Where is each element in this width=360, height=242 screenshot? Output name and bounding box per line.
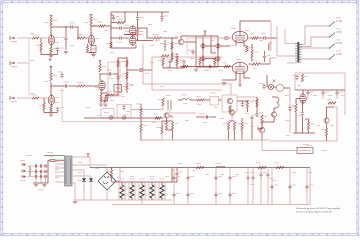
wire bright cap branch [28, 38, 30, 62]
pot loop P2 [101, 109, 114, 118]
wire OT riser x285 [285, 29, 296, 44]
wire v6 [302, 90, 304, 94]
triode V3A [130, 25, 136, 37]
input jack J1 [10, 36, 17, 42]
cap C11 [188, 49, 195, 55]
resistor R52 [307, 122, 314, 130]
filter bottom wire [33, 182, 48, 184]
triode V1A [48, 34, 54, 46]
resistor R6 plate load [90, 17, 97, 25]
cap C18 [166, 59, 172, 67]
speaker output group 3 [299, 40, 341, 49]
resistor R41 inline [153, 114, 161, 120]
dropper resistor RD5 [159, 179, 165, 201]
resistor R56 rail [195, 163, 204, 169]
bias jack JB [258, 126, 265, 132]
wire V5A plate up [240, 21, 258, 31]
wire V1A cathode [50, 45, 52, 47]
wire y95 to gnd drop [106, 95, 108, 97]
supply pad V1B [49, 59, 53, 73]
resistor R12 splitter [153, 34, 161, 39]
rail y167 left [90, 167, 172, 169]
T1 right stubs [72, 165, 107, 183]
cap C26 [321, 90, 329, 96]
filter cap C32 bottom [214, 192, 222, 198]
node V1A plate [50, 26, 51, 27]
lamp link y57 [205, 58, 216, 60]
wire tremolo y84 run [143, 44, 231, 95]
wire bridge top [106, 168, 108, 173]
wire r34 [199, 65, 201, 67]
lamp symbol LP2 [201, 56, 205, 60]
supply pad V1A [50, 16, 53, 18]
coupling cap C14 [63, 82, 69, 88]
vert x257 [256, 97, 258, 112]
resistor R8 small [117, 19, 125, 24]
wire J3 to R [17, 97, 32, 99]
speaker connector bar [297, 42, 299, 63]
ground V5B [238, 84, 242, 86]
wire OT riser x271 [270, 22, 272, 44]
wire r38 out [204, 99, 210, 101]
resistor R55 feed [106, 168, 113, 183]
wire x172 drop [171, 168, 173, 183]
wire y58 to pot [118, 57, 127, 59]
resistor R1 [31, 35, 39, 40]
wire bright mix down [28, 62, 30, 97]
cap C6 [117, 24, 123, 30]
rail y182 [112, 181, 172, 183]
resistor R18 [31, 95, 39, 100]
Bplus rect top [295, 72, 345, 74]
resistor R43 [157, 126, 164, 134]
wire y63 approach [287, 62, 297, 64]
wire C6 to V3A [123, 27, 129, 29]
wire y21 to OT [258, 20, 271, 22]
wire d1 top [80, 169, 84, 171]
diode D1 [82, 170, 86, 200]
wire q1 out [184, 41, 196, 43]
connector comb teeth right [299, 45, 301, 63]
wire plate to C14 [51, 85, 64, 87]
filter cap C30 bottom [172, 192, 180, 198]
wire drop mid [137, 21, 139, 29]
title text line2 [296, 210, 332, 213]
cap C7 [117, 36, 123, 42]
lamp symbol LP4 [216, 56, 220, 60]
wire cathode bottom bus [41, 51, 58, 55]
wire v5a screen [249, 37, 263, 39]
coupling cap C16 [107, 70, 113, 76]
wire C33 [229, 168, 231, 205]
wire c23 [251, 121, 253, 140]
wire w1 [272, 97, 277, 112]
cathode resistor R22 [50, 106, 52, 113]
wire y140 left [141, 139, 162, 141]
transistor Q2 [227, 98, 232, 104]
cap C9 rail [160, 15, 168, 21]
resistor R47 [233, 122, 240, 130]
pot P3 [122, 111, 130, 119]
wire y141 long [270, 140, 337, 142]
ground tone branch [64, 52, 68, 54]
rail y57 box [152, 56, 222, 58]
node bus2 [110, 37, 111, 38]
regulator triode V6 [300, 93, 306, 105]
transistor Q7 [324, 118, 329, 124]
wire box left [151, 57, 153, 70]
wire J1 to R1 [17, 37, 32, 39]
bridge rectifier BR1 [98, 172, 116, 190]
wire V5B right [249, 63, 253, 65]
reservoir cap C37 [270, 168, 278, 205]
wire bus to C7 [111, 37, 118, 39]
supply arrow PSU [87, 154, 90, 158]
speaker output group 1 [299, 18, 341, 45]
wire R3 to V2A [85, 37, 88, 39]
wire q3 down [167, 116, 173, 130]
cap pair C34 [245, 172, 255, 185]
wire q7 bottom [326, 136, 328, 141]
resistor R57 rail [256, 163, 266, 169]
resistor R9 bus bottom [106, 42, 112, 48]
bus x203 [202, 36, 204, 67]
cap C13 [58, 72, 64, 79]
wire V1A plate [50, 27, 52, 35]
resistor R49 [261, 115, 268, 123]
feedback wire right [187, 38, 232, 55]
grid cap C10b [175, 53, 178, 62]
wire bus to C6 [111, 27, 118, 29]
resistor R29 [122, 60, 128, 67]
relay box RB1 [114, 85, 127, 93]
wire T1 ct ground [74, 183, 76, 200]
wire q7 coll [327, 107, 335, 118]
resistor R42b [140, 124, 147, 132]
wire r8 [111, 12, 125, 23]
wire R1 to V1 grid [39, 37, 48, 39]
wire y133 [293, 132, 315, 134]
cap C12 [261, 33, 267, 40]
label smudges scatter [20, 22, 345, 187]
supply sym SP1 [222, 36, 231, 40]
wire C7 to V4A [123, 37, 129, 39]
wire r48 [241, 118, 243, 140]
wire y44 link [205, 45, 216, 47]
output tube V5A [232, 31, 248, 43]
wire V1B cathode [44, 105, 58, 113]
wire V2A cathode bus [88, 44, 94, 54]
resistor R30b [126, 79, 133, 93]
wire band right [237, 101, 248, 112]
wire y80 [222, 79, 236, 81]
dropper resistor RD4 [149, 179, 155, 201]
mains red wire 2 [48, 160, 65, 162]
cathode R24 [100, 94, 102, 101]
node bus1 [110, 27, 111, 28]
resistor R14 [171, 53, 178, 60]
node V2B plate [99, 73, 100, 74]
tone branch x66 [65, 26, 66, 50]
ground x105 [103, 104, 107, 106]
bypass cap C2 [56, 47, 64, 53]
wire cluster top [267, 75, 290, 88]
wire r43 [161, 134, 163, 140]
resistor R30 [122, 72, 128, 79]
wire C32 [215, 168, 217, 205]
resistor R59 [252, 99, 258, 107]
wire splitter out1 [137, 40, 153, 42]
resistor R58 rail [274, 163, 284, 169]
feedback wire long [62, 88, 162, 122]
resistor R51 [291, 104, 297, 112]
ground PSU left [73, 200, 77, 204]
wire C1 to V2 grid path [74, 27, 78, 38]
bias connector box [297, 144, 313, 154]
ground V2B [99, 104, 103, 106]
wire bus bottom [111, 45, 136, 48]
coupling cap C1 [69, 23, 75, 29]
wire v5b pins [236, 74, 250, 84]
node q5 [140, 139, 141, 140]
wire x142 gnd drop [141, 200, 143, 205]
lamp indicator LA1 [268, 84, 273, 89]
cross mark [273, 80, 276, 83]
wire C3 to bus [91, 25, 111, 27]
choke L1 [215, 163, 225, 168]
wire c10 [164, 40, 166, 51]
wire r42b [140, 118, 142, 140]
wire q3 res join [167, 121, 173, 140]
coil T2 a [181, 95, 190, 101]
node V2A plate [90, 25, 91, 26]
grid leak R4 [36, 43, 42, 51]
wire q8 down [262, 118, 274, 127]
resistor R38 [196, 96, 204, 101]
wire d2 top [80, 175, 91, 177]
trim rect VR1 [91, 46, 96, 53]
ground filter A [34, 185, 38, 187]
wire pot to box [143, 69, 152, 71]
wire v5a cathode pins [236, 43, 247, 46]
rail y140 [141, 139, 270, 141]
connector comb teeth [295, 44, 297, 62]
filter cap C31 top [186, 175, 194, 181]
pot P1 [139, 68, 143, 72]
top rail y12 [111, 11, 169, 13]
filter vert right [47, 161, 49, 184]
filter vert left [29, 166, 31, 177]
title text line1 [296, 207, 341, 210]
wire y58 tie [270, 58, 277, 64]
coupling resistor R3b [97, 22, 105, 28]
driver triode Q1 [178, 39, 183, 45]
input jack J3 [10, 96, 17, 102]
node gridnet [171, 37, 172, 38]
resistor R46 [223, 122, 230, 130]
rail y204 [112, 204, 310, 206]
ground lamps row [194, 69, 198, 71]
cap C25 [306, 90, 314, 96]
speaker output group 2 [299, 29, 341, 47]
wire mid riser [211, 36, 216, 53]
ground y80 [222, 83, 226, 85]
supply x205 [204, 31, 207, 36]
cap C23 [250, 115, 257, 121]
lamp symbol LP3 [216, 44, 220, 48]
wire y70 pot [127, 69, 139, 71]
resistor R23 plate load [99, 64, 106, 72]
cluster left of band [158, 98, 164, 106]
speaker output group 4 [299, 51, 341, 60]
wire q5 down [162, 119, 167, 127]
resistor R35 up [214, 58, 221, 65]
AC line filter grid [27, 164, 48, 178]
resistor R16 [250, 34, 258, 40]
resistor R13 [171, 42, 178, 49]
lamp symbol LP1 [201, 44, 205, 48]
reservoir cap C39 [305, 168, 313, 205]
wire gridnet to Q [172, 37, 178, 39]
coil sym [166, 95, 171, 110]
wire bias box [262, 140, 297, 151]
wire C30 [173, 168, 175, 205]
cathode resistor R5 [50, 47, 57, 54]
Bplus rect left [294, 73, 296, 90]
wire x290 [289, 88, 291, 133]
wire q6 [261, 123, 263, 140]
wire k1 out [219, 99, 223, 101]
wire V1B plate [50, 82, 52, 95]
cap C10 [160, 43, 167, 49]
resistor R28 [101, 97, 107, 103]
wire to OT top [267, 37, 277, 39]
resistor R33 [181, 63, 188, 68]
resistor R2 plate load [50, 18, 57, 26]
T1 left stubs [55, 160, 65, 182]
wire q1 plate [180, 36, 182, 39]
wire c34 [248, 168, 253, 205]
wire to grid network [161, 37, 172, 39]
resistor R31 [158, 59, 164, 66]
wire C14 to R20 [69, 85, 77, 87]
wire c9 [161, 12, 163, 22]
wire plate to C16 [100, 73, 108, 75]
wire plate to C3 [91, 25, 98, 27]
motor circle M1 [276, 84, 283, 91]
pot cap C42 [122, 105, 125, 111]
bus x127 [126, 57, 128, 80]
footswitch box outline [222, 95, 237, 112]
cathode resistor R7 [86, 46, 88, 53]
bus x196 [195, 36, 197, 67]
wire c22 [196, 116, 216, 118]
wire plate to C1 [51, 26, 69, 28]
wire v6 left [296, 99, 300, 134]
wire v2b k [100, 90, 102, 103]
resistor R32 [176, 59, 183, 66]
cap C17 [116, 75, 124, 81]
wire C31 [187, 168, 189, 205]
wire C16 to bus [113, 73, 118, 75]
tube circle Q4 [229, 110, 234, 116]
power transformer T1 [65, 156, 73, 186]
cap C21 [241, 102, 249, 108]
wire y97 band [152, 57, 222, 90]
resistor R50 [301, 74, 308, 82]
wire x90 down [89, 157, 91, 168]
bus x118 [117, 58, 119, 95]
wire x337 up [334, 107, 337, 141]
rail y200 [75, 199, 172, 201]
cap C28 [298, 111, 305, 117]
cap C35 [259, 168, 266, 205]
highlight wire net [124, 34, 136, 36]
heater cap Ca [259, 83, 266, 89]
wire v3a out [137, 28, 153, 38]
resistor R39 [229, 106, 231, 112]
resistor R42a hang [136, 104, 142, 117]
brace winding W1 [277, 97, 279, 108]
wire J2 [17, 62, 29, 64]
wire band left [131, 106, 196, 113]
resistor R36 [222, 63, 230, 68]
relay box K1 [210, 93, 219, 106]
rail end x310 [309, 168, 311, 205]
cap C29 [172, 168, 183, 183]
wire r42a [140, 104, 142, 118]
tone cap C1b [61, 36, 68, 42]
AC plug terminals [20, 163, 26, 181]
resistor R53 [327, 99, 336, 104]
filter cap C32 top [214, 175, 222, 181]
wire y64 bottom [196, 66, 218, 68]
output tube V5B [232, 62, 248, 74]
wire r35 [214, 65, 216, 67]
wire grid leak top [40, 38, 42, 43]
resistor R10 drop [136, 29, 143, 36]
resistor R54 [321, 128, 328, 136]
resistor R40 [246, 100, 253, 108]
wire r37 out [260, 58, 270, 64]
rail y167 mid [172, 167, 310, 169]
filter cap C30 top [172, 175, 180, 181]
wire t2 [178, 99, 197, 101]
resistor R20 [77, 82, 85, 87]
node V1B plate [50, 85, 51, 86]
resistor R15 [160, 55, 169, 59]
cap C20 [206, 65, 213, 71]
cap C36 [266, 168, 273, 205]
dropper resistor RD3 [139, 179, 145, 201]
cap C8 drop [136, 16, 144, 22]
wire y118 run [84, 117, 164, 119]
transistor Q8 [271, 112, 276, 118]
pot loop P3 [117, 105, 131, 118]
wire OT riser x277 [277, 26, 297, 56]
wire y66 run [180, 66, 232, 68]
resistor R34 up [195, 58, 201, 65]
resistor R37 [251, 60, 260, 66]
wire bridge bottom [106, 190, 108, 200]
wire y33 rail [181, 35, 218, 37]
filter drops [36, 166, 46, 183]
bus x218 [217, 36, 219, 67]
wire gridnet v [171, 38, 173, 62]
bypass cap C15 [56, 107, 64, 113]
transistor Q5 [164, 113, 169, 119]
T1 right stub top [72, 156, 90, 158]
